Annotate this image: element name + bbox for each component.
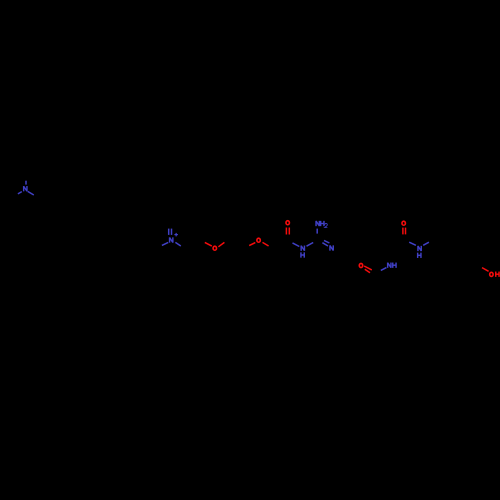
atom N1 dimethylamino nitrogen label (24, 186, 27, 191)
atom N4 amino NH2 nitrogen label (316, 221, 319, 226)
bond N1-CH3 up (blue half) (25, 181, 27, 185)
double bond O4=C line 2 (red half) (365, 269, 370, 273)
atom N5 guanidine imine nitrogen label (330, 245, 333, 250)
bond C-O2 lower-left (red half) (249, 243, 255, 246)
bond N2-chain lower-right (blue half) (175, 242, 180, 246)
double bond O4=C line 1 (red half) (364, 266, 372, 270)
bond N7-C upper-right (blue half) (423, 242, 429, 245)
double bond O5=C line 2 (red half) (405, 228, 407, 235)
atom O1 ether oxygen label (213, 246, 216, 250)
atom O2 ether oxygen label (257, 238, 260, 242)
double bond C=N5 line 2 (blue half) (322, 243, 328, 246)
bond C-N7 upper-left (blue half) (409, 242, 416, 245)
bond N3-C upper-right (blue half) (307, 243, 314, 247)
bond N2-chain lower-left (blue half) (162, 242, 168, 245)
hydrogen H of NH2 (321, 221, 324, 226)
hydrogen H on N6 (393, 263, 396, 268)
bond C-O1 upper-left (red half) (205, 242, 212, 246)
double bond C=N2 line 1 (blue half) (168, 229, 170, 235)
double bond O3=C line 2 (red half) (288, 228, 290, 235)
charge plus sign on N2 (174, 233, 178, 237)
bond C-N3 upper-left (blue half) (293, 243, 300, 247)
bond O2-C lower-right (red half) (263, 242, 269, 246)
hydrogen H on N3 (301, 252, 304, 257)
subscript 2 of NH2 (325, 223, 328, 227)
double bond C=N5 line 1 (blue half) (324, 240, 329, 243)
double bond C=N2 line 2 (blue half) (171, 229, 173, 235)
atom N6 acetamido nitrogen label (388, 263, 391, 268)
hydrogen H on N7 (418, 253, 421, 258)
atom O5 amide2 carbonyl oxygen label (402, 221, 405, 225)
bond O1-C upper-right (red half) (218, 242, 224, 246)
bond C-N6 lower-left (blue half) (381, 268, 387, 271)
double bond O3=C line 1 (red half) (285, 228, 287, 235)
atom O6 phenol oxygen label (490, 272, 493, 276)
bond N4-C vertical (blue half) (316, 229, 318, 234)
atom N2 iminium nitrogen label (170, 237, 173, 242)
double bond O5=C line 1 (red half) (402, 228, 404, 235)
bond N1-chain lower-right (blue half) (28, 191, 34, 195)
bond N1-CH3 lower-left (blue half) (18, 192, 22, 194)
hydrogen H of phenol OH (496, 272, 499, 277)
atom N7 amide2 nitrogen label (418, 246, 421, 251)
atom O4 acetamido carbonyl oxygen label (359, 263, 362, 267)
atom N3 amide1 nitrogen label (301, 246, 304, 251)
bond C-O6 (red half) (482, 268, 489, 272)
atom O3 amide1 carbonyl oxygen label (286, 221, 289, 225)
